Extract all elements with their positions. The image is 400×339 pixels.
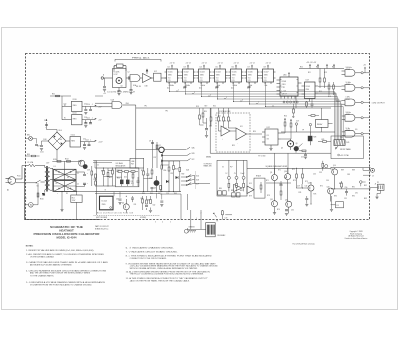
transistor Q102 dark	[83, 164, 88, 169]
svg-text:R65: R65	[150, 193, 153, 195]
svg-text:C2: C2	[77, 184, 79, 186]
svg-text:C57: C57	[37, 146, 40, 148]
svg-text:R56: R56	[164, 170, 167, 172]
svg-text:1 kHz OUTPUT: 1 kHz OUTPUT	[372, 102, 386, 104]
svg-text:D101: D101	[59, 139, 63, 141]
svg-text:IC5: IC5	[267, 135, 269, 137]
svg-text:R15: R15	[319, 91, 322, 93]
regulator sub box	[116, 168, 139, 187]
top right labels	[300, 67, 335, 99]
spare wire near border	[25, 154, 40, 157]
svg-text:P101: P101	[17, 176, 21, 178]
arrow mark	[213, 212, 217, 217]
resistor R34	[302, 168, 304, 184]
svg-text:RELAY: RELAY	[317, 123, 323, 126]
svg-text:P-P: P-P	[230, 167, 232, 169]
wires to connector	[188, 210, 206, 229]
svg-text:10 Hz: 10 Hz	[346, 128, 351, 130]
border-side resistors	[95, 174, 97, 185]
gate U1B	[143, 69, 152, 82]
gate U19A	[342, 128, 370, 137]
svg-text:C2: C2	[128, 72, 130, 74]
extra top seg	[95, 96, 103, 168]
svg-text:S2E: S2E	[196, 180, 199, 182]
right cluster R120	[161, 161, 163, 192]
wires to output stage	[275, 96, 297, 174]
svg-text:Q2: Q2	[159, 145, 161, 147]
power connector P1	[206, 223, 227, 237]
arrow heads sw	[187, 175, 191, 185]
resistor R33	[296, 168, 298, 188]
svg-text:1V: 1V	[222, 167, 224, 169]
svg-text:S2 FREQ: S2 FREQ	[140, 217, 147, 219]
switch S1	[36, 180, 45, 188]
svg-text:PL1: PL1	[24, 198, 27, 200]
relay box K1	[331, 202, 344, 208]
svg-text:R13: R13	[324, 72, 327, 74]
svg-text:IC105: IC105	[232, 72, 237, 74]
extra diode d4	[176, 176, 179, 179]
divider IC U6	[229, 63, 244, 88]
wire comparator rail	[281, 131, 335, 133]
pull-up resistors	[319, 69, 334, 96]
under-IC caps	[184, 87, 251, 88]
wire mid horizontal bus	[136, 107, 331, 109]
svg-text:VOLTAGE REF: VOLTAGE REF	[219, 110, 231, 113]
svg-text:R28: R28	[314, 137, 317, 139]
extra bottom seg	[114, 192, 162, 200]
+12V arrow	[95, 140, 103, 144]
dense row x152 R62	[151, 168, 153, 179]
svg-text:R45: R45	[346, 142, 349, 144]
svg-text:U10: U10	[224, 128, 227, 130]
left cluster resistor R108	[112, 168, 114, 186]
svg-text:7490: 7490	[232, 75, 236, 77]
svg-text:7490: 7490	[200, 75, 204, 77]
copyright block	[345, 230, 368, 240]
svg-text:R73: R73	[305, 181, 308, 183]
svg-text:C91: C91	[355, 193, 358, 195]
gate U18B	[342, 82, 370, 91]
right cluster R123	[179, 161, 181, 192]
svg-text:R101 C64 R102 C66 D31 R104 C68: R101 C64 R102 C66 D31 R104 C68	[97, 212, 133, 214]
svg-text:117V: 117V	[46, 163, 49, 165]
cap C110	[84, 106, 87, 114]
svg-text:TP1: TP1	[144, 106, 147, 108]
svg-text:IC106: IC106	[248, 72, 253, 74]
svg-text:D11: D11	[131, 183, 134, 185]
svg-text:C36: C36	[326, 180, 329, 182]
svg-text:Q11: Q11	[270, 199, 273, 201]
secondary top row	[52, 161, 82, 170]
svg-text:J3: J3	[372, 176, 374, 178]
svg-text:R54: R54	[141, 170, 144, 172]
svg-text:Q10: Q10	[284, 171, 287, 173]
cap C70	[222, 210, 224, 220]
svg-text:Q16: Q16	[327, 186, 330, 188]
svg-text:VOLTMETER FROM THE POINT INDIC: VOLTMETER FROM THE POINT INDICATED TO CH…	[30, 283, 93, 286]
cap C35	[345, 189, 348, 196]
svg-text:TO FRONT: TO FRONT	[204, 163, 212, 165]
svg-text:R20: R20	[204, 111, 207, 113]
svg-text:D1: D1	[56, 171, 58, 173]
cap C30	[285, 210, 288, 216]
bus junction dots	[169, 91, 266, 107]
diode D12	[161, 154, 187, 157]
svg-text:14: 14	[253, 63, 255, 65]
solid left-bottom border overlay	[25, 168, 100, 220]
scattered value labels	[43, 63, 357, 224]
svg-text:J3: J3	[375, 184, 377, 186]
svg-text:R16: R16	[328, 96, 331, 98]
svg-text:+5V: +5V	[363, 65, 366, 67]
border dots	[369, 167, 370, 189]
trim boxes	[218, 191, 240, 197]
resistor R22	[223, 108, 225, 127]
svg-text:R89: R89	[341, 170, 344, 172]
cap C112	[84, 120, 87, 128]
svg-text:R75: R75	[320, 186, 323, 188]
junction box outline	[160, 194, 188, 220]
svg-text:+5V: +5V	[202, 63, 205, 65]
svg-text:TP2: TP2	[165, 111, 168, 113]
svg-text:C32: C32	[305, 186, 308, 188]
resistor R29	[318, 139, 331, 143]
fuse F1	[28, 161, 45, 167]
gate U18C	[342, 97, 370, 106]
svg-text:R10: R10	[300, 67, 303, 69]
svg-text:R60: R60	[141, 198, 144, 200]
osc box innards	[114, 72, 123, 88]
bus tap labels	[178, 90, 259, 105]
svg-text:LINE: LINE	[131, 161, 134, 163]
svg-text:C101: C101	[40, 152, 44, 154]
svg-text:14: 14	[269, 63, 271, 65]
input cap stub	[103, 78, 106, 91]
svg-text:7. ▽ INDICATES CIRCUIT BOARD: 7. ▽ INDICATES CIRCUIT BOARD GROUND.	[126, 251, 179, 254]
second bus	[95, 192, 160, 194]
zener D111	[126, 180, 130, 185]
svg-text:FILT: FILT	[131, 163, 134, 165]
connector labels	[196, 213, 227, 223]
caps under oscillator	[117, 82, 132, 95]
svg-text:IC6: IC6	[355, 129, 357, 131]
svg-text:BU1: BU1	[72, 197, 75, 199]
svg-text:K1: K1	[337, 205, 339, 207]
counter IC U16	[277, 72, 302, 99]
svg-text:R19: R19	[205, 106, 208, 108]
svg-text:R76: R76	[277, 209, 280, 211]
transistor Q2 dark ring	[159, 145, 165, 153]
test point TP4	[309, 123, 311, 132]
extra hwire seg1	[104, 165, 170, 179]
cluster R131	[145, 196, 148, 210]
svg-text:+5V: +5V	[218, 63, 221, 65]
resistor R26	[284, 118, 286, 133]
svg-text:R82: R82	[240, 190, 243, 192]
svg-text:R91: R91	[352, 187, 355, 189]
svg-text:FREQ. ADJ.: FREQ. ADJ.	[132, 56, 151, 59]
svg-text:10 kHz: 10 kHz	[346, 82, 351, 84]
svg-text:ON THE SCHEMATIC DIAGRAM.: ON THE SCHEMATIC DIAGRAM.	[30, 256, 54, 259]
svg-text:C25: C25	[158, 193, 161, 195]
svg-text:(BOTTOM VIEW): (BOTTOM VIEW)	[96, 217, 108, 219]
dotted inner line	[94, 214, 161, 216]
divider IC U3	[181, 63, 196, 88]
cap C9	[149, 141, 154, 144]
svg-text:8 11: 8 11	[216, 80, 219, 82]
svg-text:10kHz: 10kHz	[201, 85, 206, 87]
resistor R31	[308, 115, 319, 117]
svg-text:7490: 7490	[184, 75, 188, 77]
op-amp U10	[221, 126, 230, 136]
tolerance label	[338, 154, 349, 157]
svg-text:B: B	[105, 190, 106, 192]
svg-text:R52: R52	[109, 177, 112, 179]
svg-text:R61: R61	[148, 200, 151, 202]
resistor R20	[202, 108, 206, 123]
svg-text:+5V: +5V	[186, 63, 189, 65]
svg-text:C61: C61	[134, 204, 137, 206]
svg-text:U7: U7	[248, 66, 250, 68]
svg-text:IC111: IC111	[73, 113, 77, 115]
svg-text:C114: C114	[85, 140, 89, 142]
resistor R40	[341, 181, 343, 189]
svg-text:THE FULLY COUNTERCLOCKWISE POS: THE FULLY COUNTERCLOCKWISE POSITION, UNL…	[130, 274, 205, 276]
op-amp U11	[236, 128, 247, 140]
svg-text:1K: 1K	[220, 121, 222, 123]
IC114 regulator	[100, 196, 114, 210]
cluster R132	[149, 196, 152, 213]
neon lamp PL1	[25, 183, 39, 207]
wire out mid	[363, 174, 370, 176]
svg-text:IN: IN	[64, 105, 65, 107]
svg-text:1kHz: 1kHz	[217, 85, 221, 87]
svg-text:R92: R92	[364, 185, 367, 187]
svg-text:8 11: 8 11	[232, 80, 235, 82]
svg-text:+5V: +5V	[250, 63, 253, 65]
svg-text:R105: R105	[94, 179, 98, 181]
svg-text:R21: R21	[218, 116, 221, 118]
svg-text:R4 1K: R4 1K	[136, 86, 142, 88]
svg-text:R26: R26	[284, 116, 287, 118]
svg-text:R58: R58	[175, 169, 178, 171]
resistor R110	[118, 171, 122, 173]
svg-text:R99: R99	[27, 154, 30, 156]
wire opamp link	[218, 127, 262, 134]
svg-text:C90: C90	[345, 187, 348, 189]
svg-text:D105: D105	[53, 159, 57, 161]
output coupling parts	[322, 161, 328, 171]
AC line plug	[6, 177, 16, 185]
svg-text:Q1: Q1	[121, 86, 123, 88]
svg-text:CONNECTION TO THE CIRCUIT BOAR: CONNECTION TO THE CIRCUIT BOARD.	[130, 257, 168, 260]
svg-text:1. RESISTOR VALUES ARE IN OH: 1. RESISTOR VALUES ARE IN OHMS (K=1,000,…	[26, 249, 95, 252]
ground rightout	[330, 196, 333, 211]
relay box K2	[316, 108, 333, 132]
svg-text:R59: R59	[182, 174, 185, 176]
divider IC U8	[261, 63, 276, 88]
svg-text:R51: R51	[101, 171, 104, 173]
svg-text:C33: C33	[319, 172, 322, 174]
divider IC U2	[165, 63, 180, 88]
svg-text:7490: 7490	[168, 75, 172, 77]
svg-text:R12: R12	[316, 67, 319, 69]
notes left column	[26, 249, 109, 286]
crystal Y1	[114, 64, 126, 71]
svg-text:IC107: IC107	[264, 72, 269, 74]
driver box	[254, 178, 265, 198]
regulator IC111	[62, 106, 95, 124]
transistor Q101	[79, 160, 85, 166]
thermal breaker box BU1	[71, 191, 82, 219]
transistor Q103 dark	[154, 176, 160, 192]
divider IC U7	[245, 63, 260, 88]
wire lower horizontal bus	[210, 152, 331, 154]
IC U12	[262, 127, 281, 151]
svg-text:R14: R14	[332, 67, 335, 69]
notes right column	[126, 246, 219, 283]
title block	[34, 225, 101, 240]
tall box labels	[219, 173, 244, 192]
labels bottom left rows	[101, 169, 184, 190]
comparator Q7	[308, 132, 317, 145]
op-amp U14	[234, 184, 242, 191]
buffer block	[154, 73, 162, 81]
line filter parts near border	[25, 135, 38, 146]
output divider box	[331, 136, 363, 159]
svg-text:R78: R78	[267, 195, 270, 197]
divider output bus	[170, 82, 344, 140]
gate output labels second line	[346, 68, 351, 132]
wire low rail	[331, 188, 370, 190]
bridge rect details	[54, 171, 77, 189]
extra res d2	[132, 172, 134, 187]
svg-text:10mV: 10mV	[241, 173, 245, 175]
wire osc output	[126, 77, 167, 79]
wire ground bus	[52, 190, 95, 192]
svg-text:ABOVE ARE IN pF UNLESS MARKED: ABOVE ARE IN pF UNLESS MARKED OTHERWISE.	[30, 263, 72, 266]
svg-text:+5V: +5V	[170, 63, 173, 65]
svg-text:R94: R94	[334, 196, 337, 198]
svg-text:C58: C58	[87, 170, 90, 172]
svg-text:R102: R102	[65, 159, 69, 161]
divider IC U5	[213, 63, 228, 88]
transistor Q1	[116, 78, 122, 84]
gate U1A	[130, 75, 140, 82]
pin bus test points	[283, 101, 298, 103]
cap C108	[40, 141, 48, 150]
output select box	[217, 160, 247, 196]
svg-text:Q14: Q14	[333, 165, 336, 167]
wire amp rail	[247, 168, 331, 174]
+5V arrow	[95, 105, 102, 109]
svg-text:NE1: NE1	[27, 135, 30, 137]
svg-text:R80: R80	[219, 188, 222, 190]
terminal B	[235, 160, 238, 191]
box interior wires	[117, 172, 139, 187]
transistor Q13	[308, 182, 315, 196]
amp extra cap	[280, 181, 283, 189]
svg-text:7490: 7490	[248, 75, 252, 77]
left cluster resistor R107	[107, 168, 109, 186]
svg-text:+5V: +5V	[234, 63, 237, 65]
svg-text:C108: C108	[43, 139, 47, 141]
svg-text:U1B: U1B	[145, 86, 148, 88]
extra diode d3	[166, 180, 169, 183]
secondary bus	[50, 168, 53, 191]
svg-text:C34: C34	[313, 174, 316, 176]
svg-text:100 kHz: 100 kHz	[346, 67, 352, 69]
extra bottom caps	[118, 199, 163, 206]
cap C113	[89, 120, 92, 124]
cap C114	[83, 142, 86, 150]
svg-text:R64: R64	[142, 193, 145, 195]
svg-text:.1: .1	[92, 104, 93, 106]
svg-text:8 11: 8 11	[184, 80, 187, 82]
transistor Q8	[294, 144, 306, 152]
transformer T1	[43, 166, 50, 197]
resistor R115	[160, 186, 162, 192]
svg-text:R75: R75	[314, 194, 317, 196]
bridge rectifier D1-D4	[54, 169, 77, 180]
switch arrows upper	[187, 147, 191, 161]
terminal C	[242, 160, 245, 191]
res R17	[154, 145, 158, 159]
transformer arrows	[52, 168, 53, 191]
res on drop	[199, 115, 212, 126]
resistor R21	[218, 108, 220, 127]
svg-text:7400: 7400	[126, 103, 129, 105]
+5V stub at gate1 out	[363, 65, 366, 73]
right cluster R122	[173, 161, 175, 192]
svg-text:U12: U12	[267, 127, 270, 129]
svg-text:P1: P1	[217, 221, 219, 223]
svg-text:IC114: IC114	[102, 201, 108, 203]
resistor R77	[280, 189, 282, 200]
transistor Q12	[285, 200, 292, 214]
cap C31	[305, 196, 308, 206]
svg-text:IC101: IC101	[168, 72, 173, 74]
svg-text:C15: C15	[301, 157, 304, 159]
svg-text:8 11: 8 11	[200, 80, 203, 82]
svg-text:7490: 7490	[216, 75, 220, 77]
filter caps	[76, 172, 89, 187]
svg-text:IC108: IC108	[282, 81, 287, 83]
svg-text:S2F: S2F	[196, 184, 199, 186]
top feed resistor R60	[50, 95, 71, 106]
svg-text:14: 14	[221, 63, 223, 65]
svg-text:D101: D101	[59, 130, 63, 132]
resistor R111	[125, 171, 129, 173]
labels bottom row2	[116, 198, 155, 207]
cap C111	[89, 106, 92, 110]
output jack J2	[363, 168, 375, 178]
svg-text:7400: 7400	[306, 89, 310, 91]
svg-text:T.P. 1 kHz: T.P. 1 kHz	[258, 156, 266, 158]
svg-text:8 11: 8 11	[168, 80, 171, 82]
transistor Q5	[287, 139, 293, 150]
svg-text:JACK ON THE FRONT PANEL THROUG: JACK ON THE FRONT PANEL THROUGH THE COAX…	[130, 279, 191, 282]
left cluster resistor R106	[103, 168, 105, 186]
dense row x140 R61	[143, 168, 145, 192]
amp junction dots	[274, 167, 335, 204]
svg-text:C9: C9	[149, 141, 151, 143]
right cluster R121	[168, 161, 170, 192]
svg-text:Q6: Q6	[296, 143, 298, 145]
svg-text:D10: D10	[124, 177, 127, 179]
wire drops to error box	[200, 108, 212, 125]
